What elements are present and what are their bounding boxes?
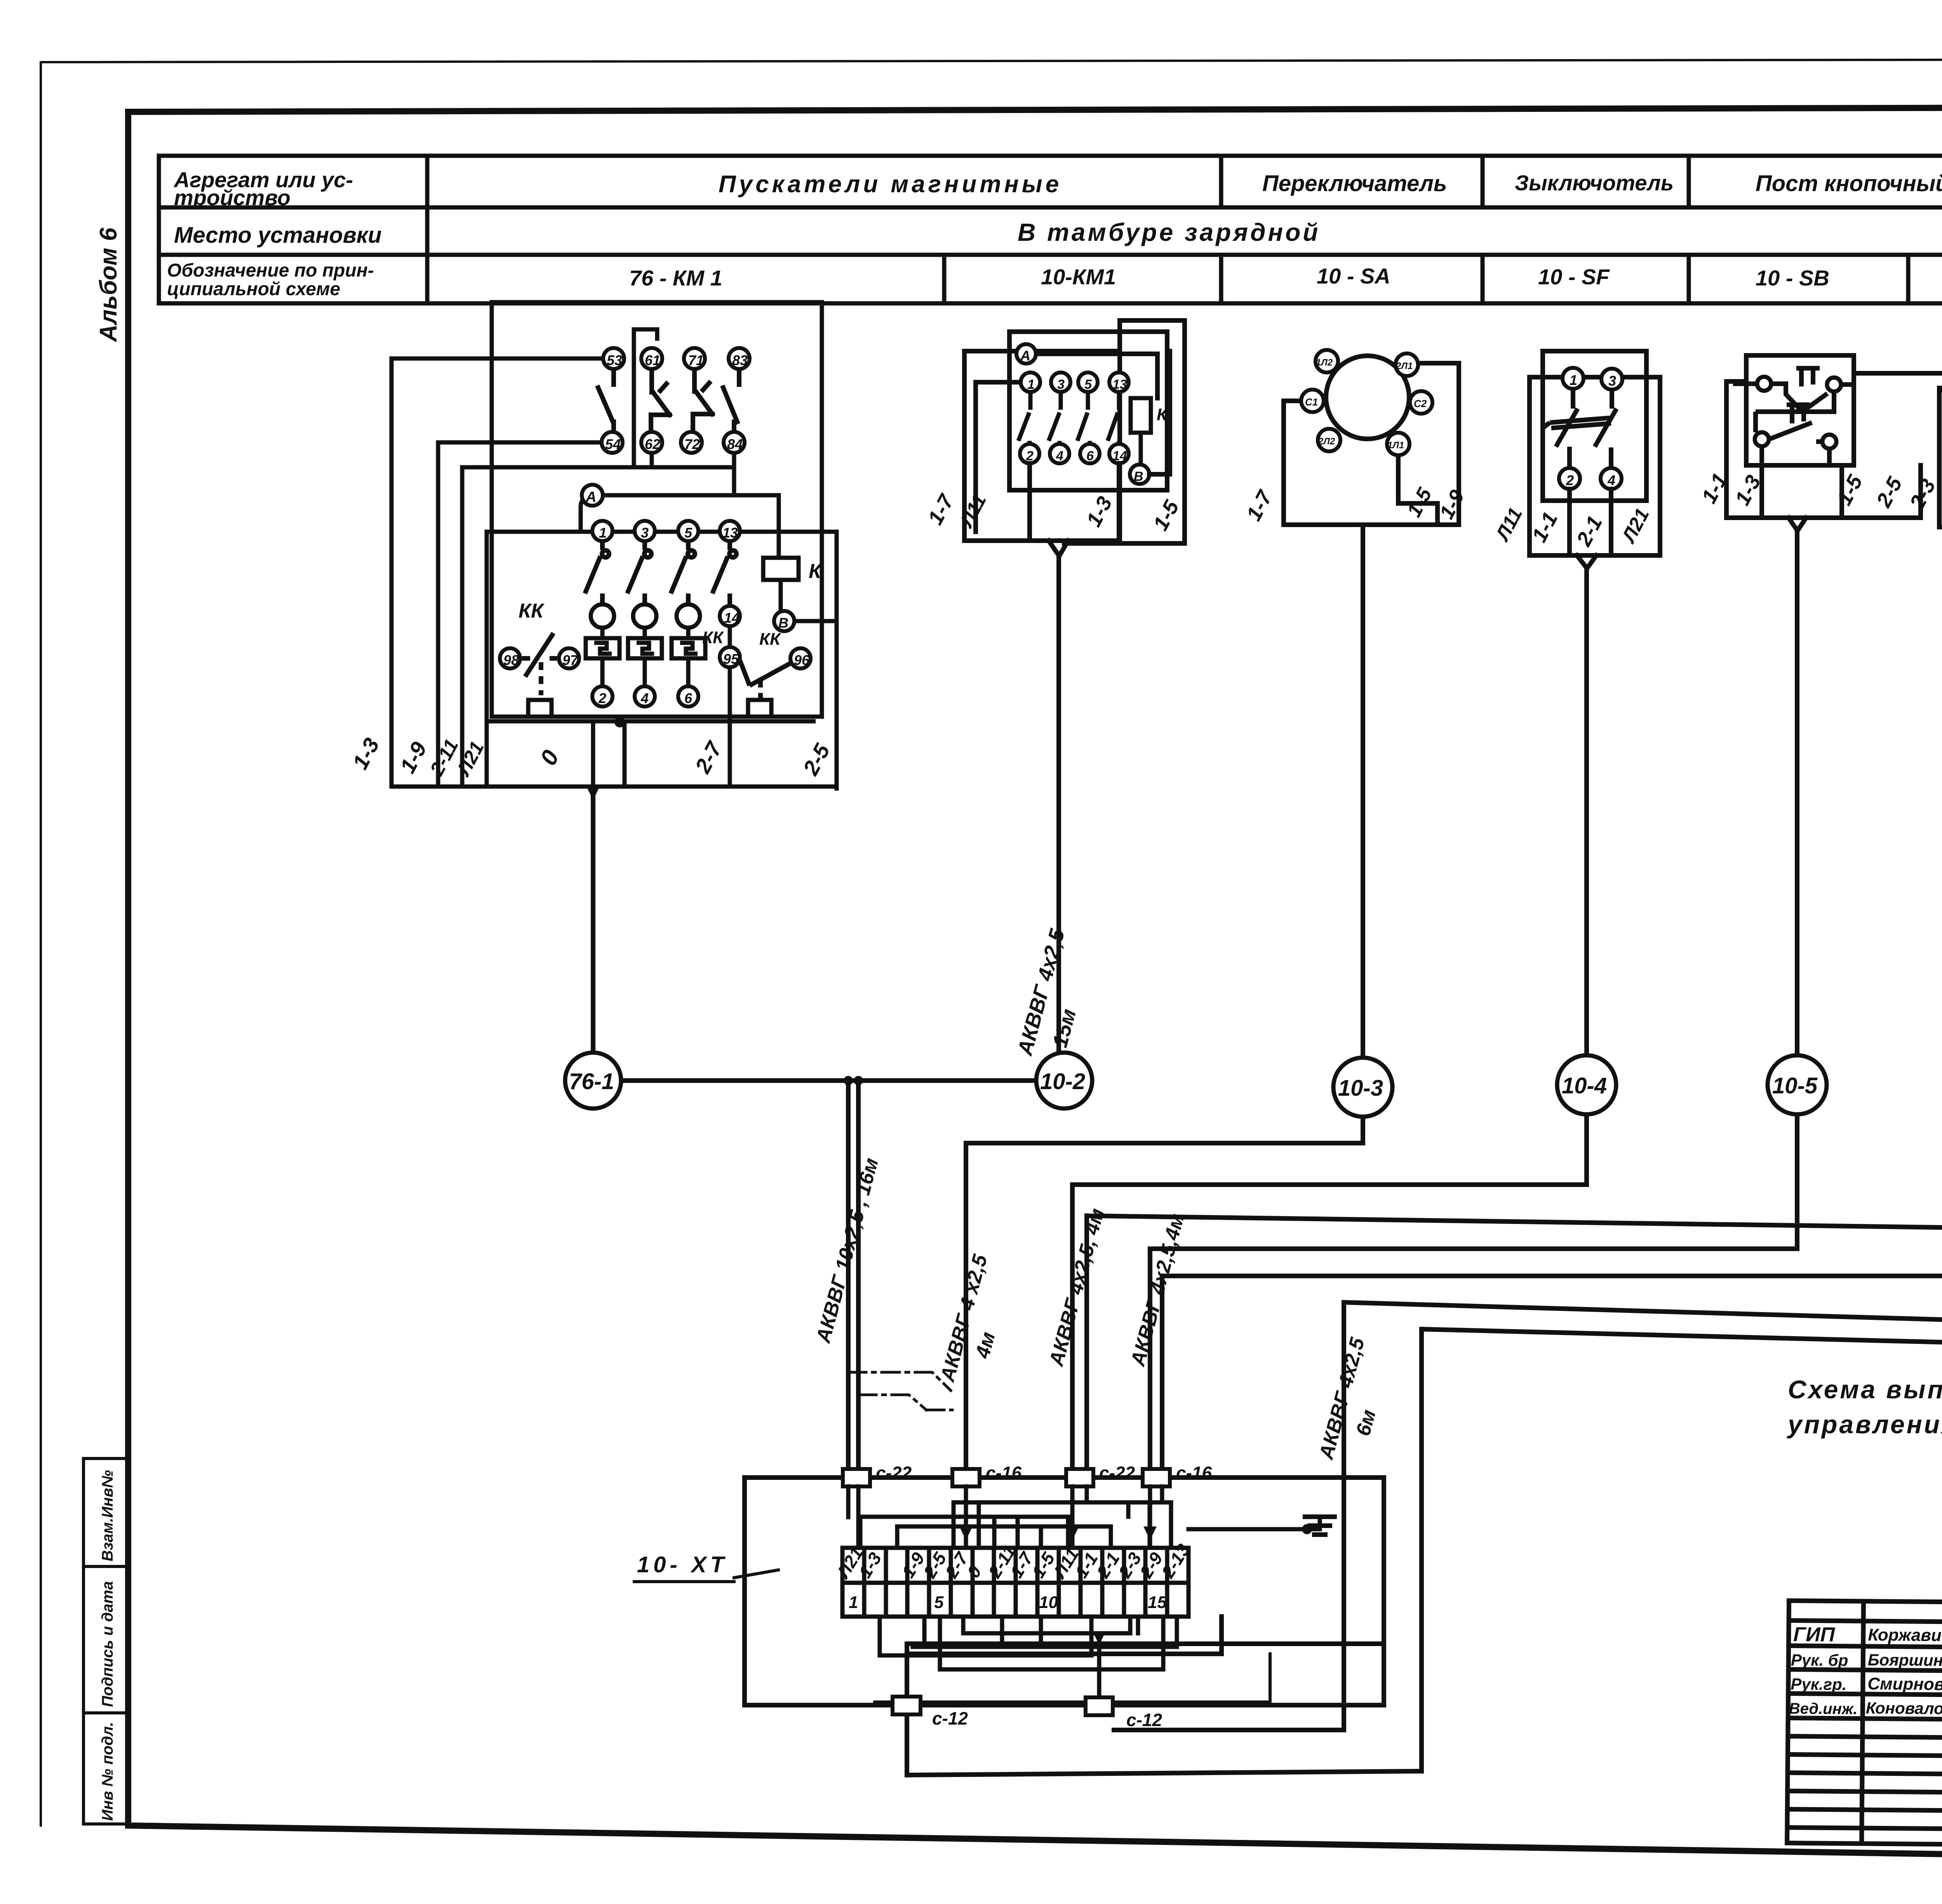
wire B right (10-KM1) [1149,351,1170,474]
svg-text:14: 14 [724,610,740,626]
stop button (10-SB) [1733,368,1854,412]
switch terminal 1L2 [1316,350,1338,372]
svg-text:4: 4 [1607,472,1615,488]
main terminal 6 [678,686,698,707]
node 10-3 [1333,1058,1392,1117]
svg-text:3: 3 [641,525,649,541]
svg-text:Схема выполнена на основани: Схема выполнена на основании схемы [1788,1375,1942,1404]
terminal 95 [720,647,740,667]
breaker terminal 2 [1559,468,1580,489]
svg-text:1Л2: 1Л2 [1316,357,1333,368]
svg-text:10-2: 10-2 [1040,1069,1085,1094]
contact 13-14 [1108,392,1119,444]
header table [159,156,1942,303]
svg-text:10: 10 [1039,1593,1058,1612]
svg-text:4: 4 [1056,449,1063,463]
switch 10-SA rotor [1326,356,1409,439]
node 10-2 [1036,1053,1092,1109]
svg-text:КК: КК [519,600,545,622]
junction dot [614,717,625,727]
contactor 76-KM1 inner box [392,532,837,788]
svg-text:А: А [585,489,596,505]
svg-text:3: 3 [1057,377,1065,392]
switch terminal 2L2 [1318,429,1340,451]
svg-text:1: 1 [849,1593,858,1612]
junction triangle at 2830 [1093,1631,1106,1645]
10-SB drop wire [1789,518,1806,1055]
svg-text:53: 53 [607,352,622,368]
svg-text:управления лист 28.: управления лист 28. [1787,1410,1942,1439]
thermal element 3 [672,628,705,686]
svg-text:Взам.Инв№: Взам.Инв№ [99,1470,116,1561]
svg-text:10 - SB: 10 - SB [1756,266,1829,290]
aux contact 61-62 [651,371,670,432]
contact 3-4 [1049,392,1061,444]
svg-text:10-4: 10-4 [1562,1073,1607,1098]
enclosure E1 [745,1478,1384,1705]
main terminal 13 [720,521,740,541]
svg-text:1Л1: 1Л1 [1387,440,1404,451]
svg-text:А: А [1020,348,1030,364]
bus 10-3 [966,1117,1363,1469]
terminal A [582,485,603,506]
contactor 76-KM1 outer box [492,302,822,717]
svg-text:2Л1: 2Л1 [1396,361,1413,371]
junction dots [844,1076,853,1085]
svg-text:98: 98 [503,652,519,668]
bus 76-7 long [1087,1216,1942,1469]
aux terminal 54 [602,432,623,453]
stop terminals (10-SB) [1757,377,1771,391]
svg-text:Обозначение по прин-: Обозначение по прин- [167,260,374,281]
svg-text:с-12: с-12 [1126,1710,1162,1730]
lower box E2 double top [907,1617,1384,1654]
note text [1787,1375,1942,1439]
svg-text:ГИП: ГИП [1793,1623,1836,1646]
svg-text:с-22: с-22 [876,1463,912,1483]
switch terminal C1 [1301,390,1324,412]
terminal 2 (10-KM1) [1020,444,1039,463]
stop button (76-SB2) [1942,374,1942,418]
strip numbers row [849,1593,1167,1612]
svg-text:Рук. бр: Рук. бр [1791,1651,1848,1669]
station 10-SB box B [1726,381,1921,518]
svg-text:6: 6 [684,690,693,706]
svg-text:84: 84 [727,436,743,452]
svg-text:76-1: 76-1 [569,1069,614,1094]
breaker terminal 4 [1601,468,1622,489]
svg-text:с-16: с-16 [1176,1463,1212,1483]
svg-text:Альбом 6: Альбом 6 [95,227,122,343]
strip labels row [832,1540,1194,1582]
svg-text:3: 3 [1608,373,1616,389]
svg-text:2: 2 [598,690,606,706]
terminal B (10-KM1) [1130,465,1149,484]
svg-text:С1: С1 [1305,396,1318,408]
svg-text:10-3: 10-3 [1338,1076,1383,1101]
svg-text:6: 6 [1086,449,1094,463]
aux terminal 72 [681,432,702,453]
wire hook above 61 [634,329,657,467]
coil K wire [779,558,781,611]
svg-text:тройство: тройство [174,185,291,210]
svg-text:1: 1 [1027,377,1035,392]
main terminal 4 [635,686,655,707]
terminal 6 (10-KM1) [1080,444,1100,463]
svg-text:61: 61 [645,352,660,368]
terminal A (10-KM1) [1016,344,1036,364]
svg-text:В тамбуре зарядной: В тамбуре зарядной [1018,218,1320,246]
terminal 3 (10-KM1) [1051,372,1070,392]
breaker bottom wires [1570,489,1611,1055]
wire down to node 76-1 [591,788,595,1053]
terminal A wire [581,495,779,558]
svg-text:15: 15 [1148,1593,1167,1612]
terminal 14 (10-KM1) [1109,444,1129,463]
cable gland c-16 no.4 [1143,1469,1170,1486]
switch terminal C2 [1410,391,1432,414]
svg-text:95: 95 [723,651,739,667]
cable gland c-12 no.1 [893,1697,921,1714]
aux terminal 53 [603,348,624,369]
starter 10-KM1 left box [964,351,1117,541]
svg-text:с-16: с-16 [986,1463,1021,1483]
dash-dot boundary lines [848,1372,952,1410]
svg-text:76 - КМ 1: 76 - КМ 1 [629,266,722,290]
station 76-SB2 box B [1939,388,1942,527]
svg-text:Пускатели магнитные: Пускатели магнитные [719,171,1062,198]
cable gland c-12 no.2 [1086,1697,1113,1715]
switch terminal 1L1 [1387,433,1410,455]
switch terminal 2L1 [1396,353,1418,376]
node 76-1 [565,1053,621,1109]
svg-text:В: В [1134,469,1143,484]
svg-text:В: В [778,615,788,631]
main contact column 5 [671,541,695,604]
svg-text:10-5: 10-5 [1772,1073,1818,1098]
svg-text:72: 72 [684,436,700,452]
breaker terminal 1 [1563,368,1584,389]
wire 76-1 to 10-2 [621,1078,1036,1083]
main terminal 2 [592,686,613,707]
svg-text:54: 54 [605,436,621,452]
svg-text:КК: КК [759,630,781,649]
aux terminal 84 [724,432,745,453]
cable pair down from junction [848,1081,858,1469]
thermal element 2 [628,628,662,686]
terminal 13 (10-KM1) [1109,372,1129,392]
terminal 98 [500,648,520,668]
svg-text:10 - SA: 10 - SA [1317,264,1390,288]
wire to contact 1 [976,382,1021,532]
left margin stamp cells [84,1458,128,1824]
svg-text:83: 83 [732,352,748,368]
svg-text:4: 4 [640,690,649,706]
main terminal 3 [635,521,655,541]
svg-text:2: 2 [1566,472,1574,488]
svg-text:5: 5 [684,525,693,541]
bus 76-8 [1114,1136,1942,1730]
starter 10-KM1 right box [1064,320,1185,543]
breaker 10-SF box B [1530,377,1660,555]
svg-text:КК: КК [702,628,724,647]
switch 10-SA drop wire [1361,525,1365,1058]
bundle verticals into glands [848,1486,1162,1548]
svg-text:ципиальной схеме: ципиальной схеме [167,279,340,299]
main terminal 5 [678,521,698,541]
cable gland c-22 no.3 [1066,1469,1093,1486]
svg-text:10- ХТ: 10- ХТ [637,1552,728,1577]
start terminals (10-SB) [1755,432,1769,446]
terminal 96 [790,648,811,668]
svg-text:Зыключотель: Зыключотель [1515,171,1674,195]
wire A row [1036,354,1157,398]
svg-text:Бояршинов: Бояршинов [1868,1651,1942,1670]
main contact column 13 [712,541,736,606]
svg-text:71: 71 [688,352,704,368]
aux terminal 71 [684,348,705,369]
svg-text:5: 5 [1084,377,1092,392]
terminal B [774,611,794,631]
node 10-5 [1768,1055,1827,1114]
terminal 4 (10-KM1) [1050,444,1069,463]
main terminal 1 [592,521,613,541]
svg-text:с-12: с-12 [932,1708,968,1728]
start button (10-SB) [1756,392,1834,518]
station 10-SB box A [1746,355,1854,465]
svg-text:Вед.инж.: Вед.инж. [1789,1700,1858,1718]
svg-text:с-22: с-22 [1099,1463,1135,1483]
cable gland c-22 no.1 [843,1469,870,1486]
svg-text:Инв № подл.: Инв № подл. [99,1722,116,1821]
contact 1-2 [1018,392,1030,444]
contact 5-6 [1077,392,1090,444]
aux contact 83-84 [723,369,739,432]
bus 10-5 [1150,1114,1797,1469]
terminal 14 [720,606,740,647]
svg-text:Пост кнопочный: Пост кнопочный [1756,171,1942,196]
terminal 1 (10-KM1) [1021,372,1040,392]
aux terminal 62 [641,432,662,453]
svg-text:96: 96 [794,652,810,668]
junction triangles at strip [959,1526,973,1540]
gland rail line [875,1654,1270,1702]
aux terminal 83 [729,348,750,369]
wire 1-3 [392,359,603,785]
svg-text:Рук.гр.: Рук.гр. [1791,1675,1846,1693]
wire B to right edge [794,619,837,623]
bus 76-6 [1162,1119,1942,1469]
left feed wire (76-SB2) [1854,371,1942,376]
thermal element 1 [586,628,619,686]
main contact column 1 [585,541,609,604]
svg-text:10-КМ1: 10-КМ1 [1041,265,1116,289]
svg-text:Подпись и дата: Подпись и дата [99,1581,116,1707]
cable gland c-16 no.2 [952,1469,980,1486]
svg-text:Место установки: Место установки [174,223,382,248]
svg-text:2Л2: 2Л2 [1318,436,1335,447]
breaker 10-SF box A [1543,351,1646,501]
coil K [763,558,822,583]
svg-text:97: 97 [562,652,579,668]
KK trip contact left [519,633,560,717]
node 10-4 [1557,1055,1616,1114]
overload heater circle 2 [633,604,656,628]
bus 76-9 [907,1147,1942,1775]
wire fan above strip [860,1502,1171,1548]
wire loops under strip [880,1617,1177,1669]
svg-text:К: К [809,560,822,583]
breaker terminal 3 [1601,369,1622,390]
bottom bus of contactor [487,631,837,788]
svg-text:Коновалова: Коновалова [1866,1699,1942,1718]
junction triangle [586,787,600,800]
bottom pinch wire [1030,463,1119,1052]
aux contact 53-54 [598,369,614,432]
aux contact 71-72 [693,370,712,432]
terminal strip 10-XT [842,1548,1189,1617]
coil K (10-KM1) [1131,398,1168,465]
overload heater circle 1 [591,604,614,628]
terminal 5 (10-KM1) [1078,372,1098,392]
main contact column 3 [627,541,651,604]
svg-text:62: 62 [645,436,660,452]
svg-text:5: 5 [934,1593,944,1612]
wire 1-9 [438,442,602,785]
svg-text:10 - SF: 10 - SF [1538,265,1610,289]
svg-text:13: 13 [722,525,738,541]
terminal 97 [559,648,579,668]
overload heater circle 3 [677,604,700,628]
bus 10-4 [1072,1114,1587,1469]
svg-text:К: К [1157,405,1168,424]
breaker contacts [1543,389,1617,468]
svg-text:Коржавина: Коржавина [1868,1626,1942,1645]
switch 10-SA wires [1284,363,1459,525]
svg-text:Смирнова: Смирнова [1867,1674,1942,1694]
starter 10-KM1 main box [1009,332,1167,490]
svg-text:13: 13 [1112,377,1127,392]
aux terminal 61 [641,348,662,369]
ground wire [1189,1517,1320,1529]
ground symbol [1305,1517,1335,1535]
wire 2-11 [462,455,734,785]
KK trip contact right [739,660,792,717]
svg-text:1: 1 [1570,372,1577,388]
svg-text:1: 1 [599,525,607,541]
svg-text:Переключатель: Переключатель [1262,171,1447,196]
svg-text:С2: С2 [1414,398,1427,409]
